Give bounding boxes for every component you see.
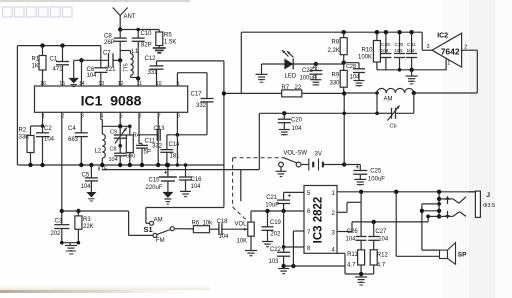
svg-text:C4: C4 [68,126,76,132]
wire IC2 pin1 [446,58,450,70]
svg-text:R11: R11 [347,252,358,258]
capacitor C29 [380,32,391,70]
inductor L2 [95,134,107,172]
ground below VOL-SW [276,171,287,176]
wire LED node to R8 [316,63,344,65]
resistor R1 [32,46,47,86]
wire pin8 stub [284,246,304,248]
svg-text:C21: C21 [266,195,278,201]
wire pin9 up [177,73,207,99]
svg-text:220uF: 220uF [146,185,163,191]
svg-text:R3: R3 [83,217,91,223]
node R11 R12 bottom [359,272,363,276]
ground below LED wire [256,64,268,82]
bottom-left gradient band [0,283,210,293]
resistor R2 [19,126,43,165]
svg-text:104: 104 [378,237,389,243]
node C31 top [409,30,413,34]
capacitor C15 [146,165,177,192]
svg-text:22K: 22K [83,224,94,230]
node C3 bottom [60,241,80,245]
node C21 bottom [281,209,285,213]
capacitor C26 [346,229,367,250]
wire LED row [262,63,316,65]
ground below C16 [180,191,191,196]
node C8 bottom [118,58,122,62]
capacitor C7 [103,51,120,74]
wire B+ riser [343,93,345,164]
svg-text:331: 331 [148,70,159,76]
ground below C28 [354,81,365,86]
svg-text:C20: C20 [291,118,303,124]
node C3 top [60,209,64,213]
wire supply bus2 [102,169,259,171]
wire tank row [259,112,377,114]
svg-text:104: 104 [407,48,415,54]
node C22 bottom [281,264,285,268]
node pin5 trimmer [118,124,122,128]
node C23 top [314,62,318,66]
node Cb left [375,112,379,116]
svg-text:22: 22 [295,85,302,91]
node pin7 pin8 join [282,245,286,249]
node C14 bus [165,163,169,167]
ground top-right [406,70,418,84]
node R3 top [76,209,80,213]
capacitor C19 [262,211,282,242]
wire pin4 down [337,253,361,274]
svg-text:Cb: Cb [390,124,397,130]
svg-text:680: 680 [126,154,135,160]
svg-text:104: 104 [381,48,389,54]
resistor R11 [347,250,365,277]
wire pin1 rail [337,191,475,193]
IC U3 IC3 2822 body [304,186,337,254]
node AM left [375,91,379,95]
svg-text:AM: AM [154,217,163,223]
svg-text:C18: C18 [217,219,229,225]
node gnd row [398,68,414,72]
svg-text:104: 104 [81,184,92,190]
jack J barrel [469,191,495,217]
resistor R10 [358,32,380,70]
svg-text:202: 202 [51,231,62,237]
wire speaker top feed [422,249,440,251]
node C15 top [166,163,170,167]
svg-text:J: J [486,192,490,199]
wire AM tank left leg [376,93,378,113]
svg-text:L1: L1 [132,49,139,55]
node pin14 [79,58,83,62]
capacitor C22 [269,247,291,266]
node C19 top [265,209,269,213]
node C4 bus [79,163,83,167]
antenna ANT [113,8,136,30]
capacitor C18 [217,219,239,240]
wire pin7 L [293,231,304,266]
svg-text:C3: C3 [55,219,63,225]
svg-text:7T5: 7T5 [124,63,130,72]
resistor R5 [156,30,177,49]
node R2 bus [28,163,32,167]
capacitor C13 [139,126,165,141]
wire AM tank right leg [413,93,415,113]
svg-text:332: 332 [196,103,207,109]
svg-text:82P: 82P [141,43,152,49]
node R4 top [128,125,132,129]
svg-text:LED: LED [285,73,297,79]
svg-text:R5: R5 [164,33,172,39]
svg-text:C29: C29 [381,42,390,48]
svg-text:SP: SP [458,252,467,259]
svg-text:202: 202 [270,232,281,238]
svg-text:FM: FM [156,238,165,244]
wire AM contact up [146,208,224,224]
svg-text:104: 104 [191,184,202,190]
svg-text:33K: 33K [19,135,30,141]
wire cap bottom row [377,69,447,71]
svg-text:Φ3.5: Φ3.5 [483,203,495,209]
svg-text:4.7: 4.7 [347,263,356,269]
svg-text:1.5K: 1.5K [164,40,176,46]
svg-text:104: 104 [346,237,357,243]
ground below R11 R12 [355,277,367,285]
resistor R9 [330,63,348,94]
wire tank to bus2 [258,113,260,169]
wire pin11 drop [137,79,139,87]
wire pin3 L [337,222,352,232]
ground below C20 [279,130,290,135]
svg-text:7642: 7642 [441,46,460,56]
node pin8 bus [176,163,180,167]
svg-text:C13: C13 [154,126,166,132]
svg-text:1K: 1K [32,64,39,70]
speaker SP [440,243,468,265]
svg-text:C26: C26 [347,229,359,235]
wire IC2 input [422,32,432,50]
IC3 pin numbers left [307,191,311,252]
node C29 top [384,30,388,34]
svg-text:C9: C9 [110,130,117,136]
svg-text:AM: AM [384,97,393,103]
ground below VOL [245,251,257,256]
svg-text:100K: 100K [358,55,372,61]
svg-text:S1: S1 [144,225,153,234]
trimmer capacitor C9 [110,126,127,146]
node R7 row left [222,91,226,95]
svg-text:4.7: 4.7 [377,263,386,269]
ground below C3 R3 [65,243,77,254]
capacitor C10 [132,30,152,79]
node R8 top rail [342,30,346,34]
svg-text:C5: C5 [82,173,90,179]
node R1 top [40,43,44,47]
node C8b bus [118,163,122,167]
capacitor C1 [50,46,70,86]
wire top-left rail [17,45,100,47]
svg-text:C30: C30 [395,42,404,48]
resistor R6 [192,221,219,233]
wire pin2 L [337,202,361,212]
ground below C23 [310,80,321,85]
wire pin6 node down [283,211,285,247]
node C2 bus [40,163,44,167]
wire S1 pole to R6 [174,228,193,230]
wire pin8 drop [176,112,178,165]
node L1 bottom pin11 [136,76,140,80]
wire pin5 drop [119,112,121,126]
svg-text:R10: R10 [362,48,374,54]
node jack col [420,190,442,219]
wire bottom gnd run [284,253,345,266]
node R9 bottom [342,91,346,95]
capacitor C8b fixed [109,146,127,165]
svg-text:+: + [312,65,315,71]
svg-text:471: 471 [53,67,64,73]
svg-text:10uF: 10uF [265,203,279,209]
svg-text:104: 104 [109,157,118,163]
capacitor C14 [160,135,180,165]
svg-text:C8: C8 [110,147,117,153]
placeholder character boxes [3,7,73,17]
svg-text:C15: C15 [149,178,161,184]
wire stub below bus2 [240,170,242,202]
wire C12 to right corner [157,60,224,62]
capacitor C17 [167,92,214,135]
svg-text:104: 104 [44,137,55,143]
svg-text:R9: R9 [332,73,340,79]
svg-text:2: 2 [464,44,467,50]
wire ground bus1 [20,164,224,166]
capacitor C4 [68,112,88,165]
node C1 top [60,43,64,47]
node trimmer bottom [118,144,122,148]
capacitor C2 [36,126,55,165]
svg-text:C28: C28 [346,64,356,70]
wire left bus corner [17,164,20,166]
node R10 top [375,30,379,34]
node pin1 R2 C2 [41,124,45,128]
svg-text:330: 330 [330,81,341,87]
node C17 pin8 junction [176,133,180,137]
capacitor C28 [344,63,365,81]
wire C27 riser [373,222,375,237]
capacitor C8 [104,30,127,61]
svg-text:5P: 5P [144,150,151,156]
wire left drop [16,46,18,165]
capacitor C6 [87,67,108,86]
svg-text:26P: 26P [104,40,115,46]
op-amp U2 IC2 7642 [432,33,462,68]
switch VOL-SW [279,151,308,172]
svg-text:R1: R1 [32,57,40,63]
svg-text:C19: C19 [270,220,282,226]
LED D1 [282,50,297,79]
dashed gang link [233,158,283,221]
wire C26 riser [360,192,362,237]
resistor R4 [126,126,141,165]
node C11 bus [140,163,144,167]
wire C3 R3 bottom [62,242,79,244]
wire IC2 output [462,44,478,93]
svg-text:C16: C16 [191,177,203,183]
capacitor C20 [278,113,303,132]
svg-text:R8: R8 [332,40,340,46]
svg-text:10K: 10K [237,239,248,245]
svg-text:3V: 3V [315,152,322,158]
svg-text:IC1 9088: IC1 9088 [81,93,142,109]
wire pin1 drop [42,112,44,126]
wire R7 row [224,92,344,94]
wire pin12 drop [119,60,121,86]
wire output node rail [352,221,428,223]
ground below C22 [278,269,289,274]
ground below C19 [262,242,273,247]
svg-text:C8: C8 [104,34,112,40]
node B+ cross [342,112,346,116]
svg-text:C27: C27 [375,229,387,235]
resistor R8 [328,32,348,63]
svg-text:103: 103 [269,259,280,265]
IC3 pin numbers right [331,191,335,253]
capacitor C3 [51,211,70,243]
wire jack contact rows [422,192,439,250]
node C20 top [282,111,286,115]
svg-text:100uF: 100uF [368,177,385,183]
wire node to FM contact [62,211,153,235]
wire pin6 drop [139,112,142,143]
switch S1 [144,217,175,243]
svg-text:2.2K: 2.2K [328,48,340,54]
svg-text:1: 1 [447,61,450,67]
resistor R7 [282,85,302,97]
wire output to jack [427,216,429,222]
svg-text:R7: R7 [282,85,290,91]
svg-text:ANT: ANT [124,14,136,20]
svg-text:+: + [288,194,292,200]
svg-text:VOL: VOL [235,222,248,228]
capacitor C16 [179,165,202,191]
wire pin2 long drop [61,112,63,211]
inductor L1 [120,49,139,79]
wire antenna top rail [120,29,159,31]
node C30 top [397,30,401,34]
wire AM row [344,92,477,94]
svg-text:IC3 2822: IC3 2822 [313,197,325,244]
capacitor C5 [81,165,98,192]
svg-text:C2: C2 [44,126,52,132]
capacitor C11 [136,139,163,166]
capacitor C30 [394,32,405,70]
ground below C25 [354,179,366,184]
ground below C15 [162,192,173,204]
svg-text:104: 104 [350,75,361,81]
svg-text:VOL-SW: VOL-SW [283,151,307,157]
svg-text:104: 104 [292,126,303,132]
jack J contacts [439,196,466,219]
IC1 bottom pin numbers 1-8 [42,114,180,120]
ground left of pin14 [68,60,79,86]
wire pin5 of IC3 [284,191,304,193]
svg-text:C14: C14 [169,142,181,148]
node R8 R9 junction [342,61,346,65]
node bottom mid [291,264,295,268]
wire pin4 to L2 [101,112,103,134]
resistor R3 [75,211,94,243]
svg-text:683: 683 [68,137,79,143]
variable capacitor Cb [377,106,414,130]
svg-text:L2: L2 [95,149,102,155]
svg-text:R2: R2 [19,128,27,134]
svg-text:104: 104 [87,73,98,79]
capacitor C25 [353,165,385,183]
capacitor C21 [265,192,291,211]
wire pin7 drop [157,112,159,165]
node pin7 bus [156,163,160,167]
svg-text:100uF: 100uF [300,76,317,82]
wire rail from corner [241,31,422,33]
svg-text:C17: C17 [191,92,203,98]
node R4 bus [128,163,132,167]
svg-text:C22: C22 [270,247,282,253]
wire pin14 node rail [74,59,109,61]
svg-text:C12: C12 [145,56,157,62]
svg-text:C7: C7 [103,51,111,57]
node AM right [412,91,416,95]
svg-text:R6 10k: R6 10k [192,221,214,227]
node battery junction [342,162,346,166]
node rail speaker branch [394,190,398,194]
capacitor C31 [406,32,417,70]
ground below C5 [86,192,96,201]
ground below R5 [153,48,166,53]
svg-text:181: 181 [170,154,181,160]
battery 3V [301,152,344,171]
wire trimmer top rail [102,125,130,127]
svg-text:221: 221 [106,67,117,73]
wire left supply drop [240,32,242,93]
inductor AM coil [377,88,414,102]
capacitor C27 [368,229,389,250]
svg-text:R12: R12 [377,253,389,259]
svg-text:C10: C10 [141,31,153,37]
svg-text:3: 3 [427,44,430,50]
node C10 top [137,28,140,31]
svg-text:+: + [356,165,360,171]
node antenna [118,27,122,31]
svg-text:C25: C25 [370,169,382,175]
node C27 top [372,220,376,224]
svg-text:+: + [164,171,168,177]
wire VOL to pin6 [251,210,304,212]
svg-text:C31: C31 [407,42,416,48]
svg-text:IC2: IC2 [437,33,448,40]
svg-text:104: 104 [394,48,402,54]
node C16 top [184,163,188,167]
wire pin14 drop [81,60,83,86]
svg-text:C1: C1 [50,57,58,63]
capacitor C12 [145,56,164,86]
wire pin13 from top rail [100,46,102,68]
wire speaker left feed [396,192,439,256]
svg-text:104: 104 [219,234,230,240]
IC U1 IC1 9088 body [35,86,188,112]
node C5 bus [89,163,93,167]
resistor R12 [361,250,388,274]
svg-text:332: 332 [152,144,163,150]
wire long vertical AM feed [223,61,225,208]
IC1 top pin numbers 16-9 [40,81,179,87]
